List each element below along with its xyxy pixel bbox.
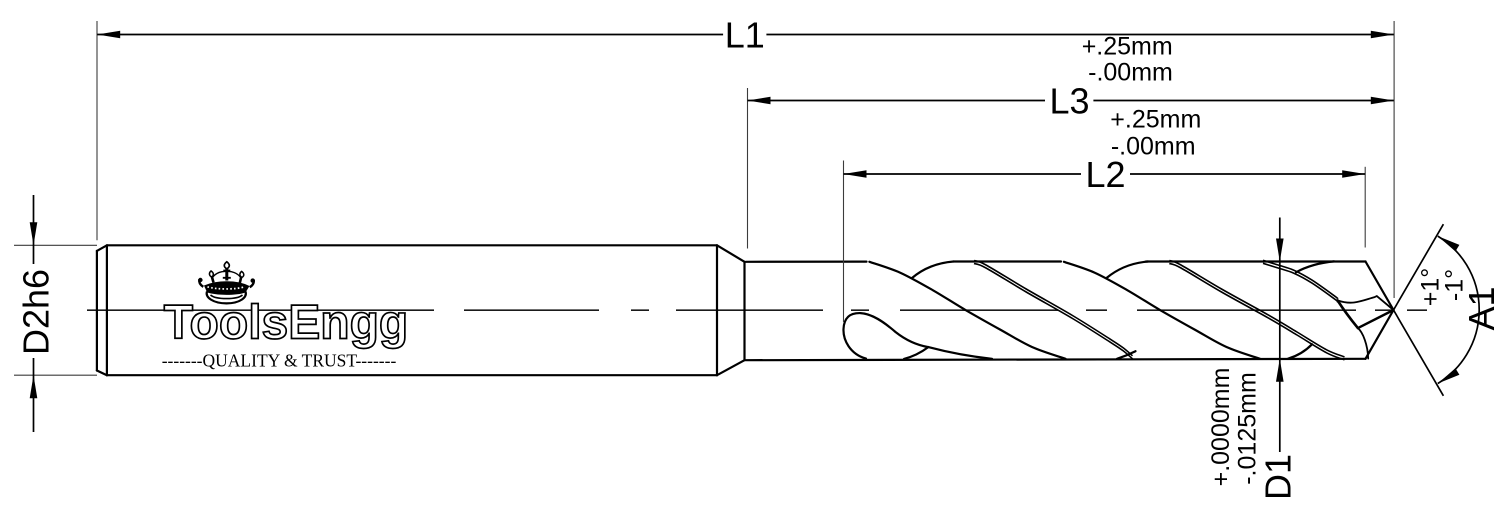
trailing edge R2 top	[912, 262, 954, 279]
svg-text:-.00mm: -.00mm	[1088, 59, 1173, 87]
A1 arc bottom arrow	[1438, 368, 1460, 383]
logo crown	[198, 262, 255, 304]
trailing edge R3 bottom	[1117, 351, 1136, 359]
L1/L3 right extension	[1393, 21, 1395, 298]
svg-text:-.00mm: -.00mm	[1111, 132, 1196, 160]
svg-text:L3: L3	[1049, 80, 1089, 121]
shank top edge	[107, 244, 717, 246]
shank left chamfer edge	[106, 245, 108, 375]
crest2 top edge	[954, 260, 1062, 262]
D2h6 bottom arrow	[30, 375, 38, 398]
crown right horn	[250, 280, 254, 287]
A1 angle arc	[1438, 236, 1479, 383]
crown right spike	[240, 277, 241, 283]
leading/margin D3 (double)	[1263, 260, 1338, 299]
L1 right arrow	[1371, 31, 1394, 39]
svg-text:D1: D1	[1258, 454, 1299, 500]
svg-text:ToolsEngg: ToolsEngg	[164, 297, 408, 350]
D3 thick tail	[1338, 301, 1358, 329]
point top bevel	[1366, 262, 1394, 311]
svg-text:+.25mm: +.25mm	[1082, 33, 1173, 61]
shank right face	[716, 245, 718, 375]
L3 left extension	[747, 88, 749, 249]
D1 top arrow	[1276, 239, 1284, 262]
angle extension lines from tip	[1394, 224, 1444, 396]
point bottom flank arc	[1358, 328, 1368, 359]
margin line M1 (double)	[974, 261, 1133, 356]
trailing edge R3 top	[1107, 262, 1149, 279]
crown left spike	[212, 277, 214, 283]
L2 right arrow	[1342, 170, 1365, 178]
L3 dimension line	[748, 100, 1394, 102]
shank-to-neck taper	[717, 245, 745, 375]
D2h6 dimension line	[33, 195, 35, 432]
L2 dimension line	[844, 173, 1366, 175]
crown center finial	[225, 269, 228, 281]
crown arches	[213, 271, 242, 277]
crest3-4 top edge	[1146, 260, 1366, 262]
L1 dimension line	[97, 34, 1394, 36]
L2 left arrow	[844, 170, 867, 178]
neck and crest1 top edge	[746, 261, 867, 263]
D1 bottom arrow	[1276, 359, 1284, 382]
point flank boundary (web curve)	[1338, 296, 1394, 310]
centerline (drill axis, dash-dot)	[87, 309, 1427, 311]
crown bowl rim	[207, 292, 246, 304]
L3 left arrow	[748, 97, 771, 105]
svg-text:-------QUALITY & TRUST-------: -------QUALITY & TRUST-------	[162, 351, 397, 371]
A1 arc top arrow	[1438, 236, 1460, 251]
svg-text:-.0125mm: -.0125mm	[1234, 372, 1262, 485]
D2h6 top arrow	[30, 222, 38, 245]
extension lines (thin)	[14, 21, 1394, 375]
trailing edge R4 bottom	[1288, 344, 1312, 358]
flute heel teardrop	[843, 313, 992, 359]
crown band pearls	[208, 287, 245, 289]
crown left horn	[199, 279, 203, 287]
L1 left arrow	[97, 31, 120, 39]
svg-text:D2h6: D2h6	[16, 269, 57, 355]
body bottom edge	[746, 359, 1366, 360]
crown bowl inner rim	[211, 295, 243, 299]
shank bottom edge	[107, 374, 717, 376]
D2h6 bottom extension	[14, 374, 97, 376]
shank left chamfer slants	[97, 245, 107, 375]
shank left face	[96, 251, 98, 371]
point bottom bevel	[1366, 310, 1394, 359]
cutting lip to tip	[1358, 310, 1394, 328]
D1 dimension line	[1279, 218, 1281, 453]
svg-text:+.25mm: +.25mm	[1110, 106, 1201, 134]
trailing edge R2 bottom	[904, 347, 928, 359]
L2 left extension	[843, 161, 845, 323]
svg-text:-1°: -1°	[1441, 269, 1469, 301]
L3 right arrow	[1371, 97, 1394, 105]
svg-text:L1: L1	[725, 14, 765, 55]
L2 right extension	[1364, 167, 1366, 248]
flute leading edge D1	[869, 262, 1065, 359]
trailing edge R4 top	[1296, 261, 1334, 272]
neck start edge	[743, 262, 745, 360]
crown band	[204, 281, 250, 295]
L1 left extension	[96, 21, 98, 240]
flute leading edge D2	[1064, 262, 1260, 359]
D2h6 top extension	[14, 244, 97, 246]
margin line M2 (double)	[1169, 261, 1344, 357]
svg-text:+.0000mm: +.0000mm	[1207, 368, 1235, 487]
